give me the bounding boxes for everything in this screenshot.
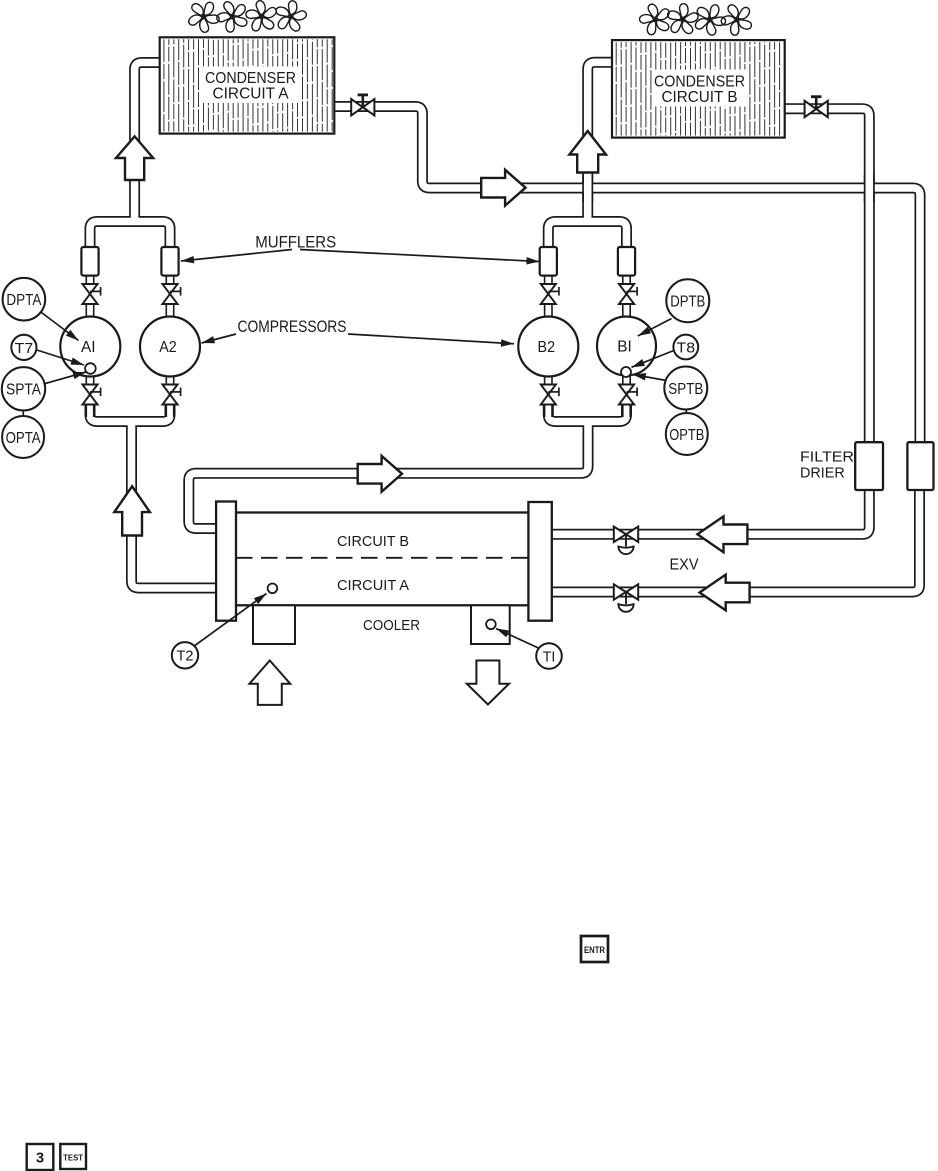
svg-text:DPTB: DPTB bbox=[670, 293, 705, 310]
wire: main refrigerant pipes (double line) bbox=[90, 62, 920, 592]
valve circuit B discharge (condenser outlet service valve) bbox=[805, 97, 828, 118]
compressor A1 bbox=[60, 317, 120, 377]
compressor B1 bbox=[597, 317, 656, 376]
svg-text:SPTB: SPTB bbox=[668, 381, 703, 398]
key button TEST bbox=[60, 1144, 86, 1169]
leader arrow: MUFFLERS to B2 muffler bbox=[300, 250, 540, 266]
sensor port on B1 (T8/SPTB tap) bbox=[621, 367, 631, 377]
node OPTA label circle bbox=[2, 416, 44, 458]
svg-text:CIRCUIT A: CIRCUIT A bbox=[337, 577, 409, 594]
muffler (A2 branch) bbox=[161, 247, 178, 276]
leader arrow: T7 to A1 sensor bbox=[37, 350, 85, 369]
muffler (A1 branch) bbox=[81, 247, 98, 276]
node SPTA label circle bbox=[2, 367, 45, 410]
svg-text:TI: TI bbox=[543, 648, 556, 665]
cooler right end cap bbox=[528, 502, 551, 621]
sensor port on cooler right leg (T1 tap) bbox=[486, 620, 496, 630]
svg-text:CIRCUIT B: CIRCUIT B bbox=[662, 89, 738, 106]
condenser coil A bbox=[160, 37, 335, 133]
wire: B liquid drop passing over A liquid line (crossing) bbox=[865, 175, 874, 202]
flow arrow: up on circuit A suction riser bbox=[114, 486, 150, 535]
svg-text:CIRCUIT B: CIRCUIT B bbox=[337, 533, 409, 550]
cooler left leg bbox=[253, 605, 295, 644]
muffler (B1 branch) bbox=[618, 247, 635, 276]
valve A1 suction bbox=[82, 385, 101, 405]
svg-text:ENTR: ENTR bbox=[584, 945, 605, 956]
fan group: condenser B fans bbox=[638, 2, 751, 36]
node T2 label circle bbox=[172, 642, 198, 668]
leader arrow: SPTB to B1 sensor bbox=[632, 371, 666, 381]
valve EXV circuit B (EXV) bbox=[614, 527, 638, 555]
filter drier 1 (circuit B) bbox=[855, 442, 883, 490]
svg-text:3: 3 bbox=[36, 1151, 44, 1167]
condenser coil B bbox=[612, 40, 785, 138]
svg-text:T8: T8 bbox=[677, 339, 696, 356]
leader arrow: T2 to cooler sensor bbox=[194, 591, 269, 647]
svg-text:AI: AI bbox=[81, 339, 96, 356]
leader arrow: SPTA to A1 sensor bbox=[44, 368, 88, 384]
key button ENTR bbox=[581, 936, 608, 962]
svg-text:OPTA: OPTA bbox=[6, 430, 41, 447]
valve circuit A discharge (condenser outlet service valve) bbox=[351, 95, 374, 116]
svg-text:FILTER: FILTER bbox=[800, 449, 854, 466]
flow arrow: left into EXV circuit B line bbox=[697, 516, 747, 552]
svg-text:MUFFLERS: MUFFLERS bbox=[255, 234, 336, 252]
valve A2 discharge bbox=[162, 284, 181, 304]
cooler shell bbox=[226, 513, 545, 606]
node T1 label circle bbox=[536, 643, 562, 669]
valve B2 suction bbox=[541, 385, 560, 405]
leader arrow: DPTB to B1 bbox=[636, 319, 671, 340]
svg-text:COMPRESSORS: COMPRESSORS bbox=[238, 318, 347, 336]
wire: B discharge riser passing over liquid line (crossing) bbox=[583, 175, 592, 202]
flow arrow: right on circuit A liquid line bbox=[481, 170, 525, 206]
flow arrow: right on circuit B suction line bbox=[358, 456, 402, 492]
leader arrow: DPTA to A1 bbox=[42, 313, 81, 344]
fan group: condenser A fans bbox=[187, 0, 308, 34]
compressor A2 bbox=[140, 317, 200, 377]
node DPTB label circle bbox=[666, 279, 709, 322]
svg-text:EXV: EXV bbox=[670, 557, 700, 574]
svg-text:DRIER: DRIER bbox=[800, 465, 845, 482]
svg-text:CONDENSER: CONDENSER bbox=[205, 70, 296, 87]
flow arrow: up into condenser A bbox=[116, 136, 153, 180]
svg-text:COOLER: COOLER bbox=[363, 618, 420, 634]
leader arrow: COMPRESSORS to B2 bbox=[348, 334, 514, 347]
node OPTB label circle bbox=[666, 413, 708, 455]
wire: compressor connection stubs bbox=[90, 273, 627, 417]
leader arrow: T1 to cooler sensor bbox=[494, 625, 539, 648]
cooler right leg bbox=[471, 605, 510, 644]
flow arrow: left into EXV circuit A line bbox=[700, 575, 750, 611]
sensor port on cooler shell (T2 tap) bbox=[268, 584, 278, 594]
cooler left end cap bbox=[216, 502, 236, 621]
leader arrow: MUFFLERS to A2 muffler bbox=[181, 250, 292, 265]
muffler (B2 branch) bbox=[540, 247, 557, 276]
svg-text:SPTA: SPTA bbox=[6, 382, 41, 399]
leader arrow: COMPRESSORS to A2 bbox=[201, 334, 236, 347]
valve A1 discharge bbox=[82, 284, 101, 304]
wire: SPTB-OPTB connecting tick bbox=[685, 409, 687, 417]
flow arrow: chilled water in (up, below cooler) bbox=[249, 661, 290, 705]
node T8 label circle bbox=[673, 335, 698, 360]
node SPTB label circle bbox=[664, 367, 707, 410]
key button 3 bbox=[27, 1144, 54, 1170]
valve B2 discharge bbox=[541, 284, 560, 304]
flow arrow: chilled water out (down, below cooler) bbox=[467, 661, 509, 705]
svg-text:DPTA: DPTA bbox=[6, 292, 41, 309]
valve B1 discharge bbox=[619, 284, 638, 304]
svg-text:OPTB: OPTB bbox=[669, 427, 704, 444]
node DPTA label circle bbox=[3, 278, 46, 321]
svg-text:B2: B2 bbox=[538, 339, 556, 356]
valve A2 suction bbox=[162, 385, 181, 405]
compressor B2 bbox=[518, 317, 578, 377]
svg-text:BI: BI bbox=[617, 339, 632, 356]
valve B1 suction bbox=[619, 385, 638, 405]
leader arrow: T8 to B1 sensor bbox=[630, 351, 674, 371]
sensor port on A1 (T7/SPTA tap) bbox=[85, 363, 96, 374]
svg-text:A2: A2 bbox=[159, 339, 177, 356]
filter drier 2 (circuit A) bbox=[907, 442, 933, 490]
svg-text:TEST: TEST bbox=[63, 1153, 84, 1163]
svg-text:CIRCUIT A: CIRCUIT A bbox=[213, 86, 289, 103]
flow arrow: up into condenser B bbox=[569, 131, 606, 173]
valve EXV circuit A (EXV) bbox=[614, 584, 638, 612]
svg-text:CONDENSER: CONDENSER bbox=[654, 73, 745, 90]
svg-text:T7: T7 bbox=[15, 340, 34, 357]
node T7 label circle bbox=[11, 335, 36, 360]
wire: SPTA-OPTA connecting tick bbox=[22, 410, 24, 417]
svg-text:T2: T2 bbox=[177, 648, 194, 665]
